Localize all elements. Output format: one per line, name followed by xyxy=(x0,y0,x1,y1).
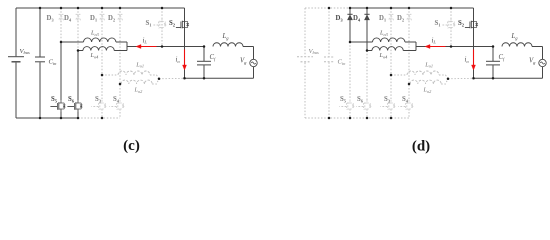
svg-text:Lo4: Lo4 xyxy=(379,52,389,59)
svg-text:S4: S4 xyxy=(402,96,409,103)
svg-text:S5: S5 xyxy=(340,96,347,103)
svg-text:Lo1: Lo1 xyxy=(135,61,144,68)
svg-text:Cin: Cin xyxy=(338,59,347,66)
svg-text:S5: S5 xyxy=(51,96,58,103)
svg-text:io: io xyxy=(465,57,470,64)
svg-text:Vg: Vg xyxy=(529,58,536,65)
svg-text:Lo3: Lo3 xyxy=(379,30,388,37)
svg-text:Vbus: Vbus xyxy=(309,48,320,55)
svg-text:D3: D3 xyxy=(47,15,55,22)
svg-text:Lg: Lg xyxy=(511,33,519,40)
svg-text:S3: S3 xyxy=(384,96,391,103)
svg-text:Lg: Lg xyxy=(222,33,230,40)
svg-text:S6: S6 xyxy=(357,96,364,103)
svg-text:D1: D1 xyxy=(379,15,387,22)
svg-text:Cin: Cin xyxy=(49,59,58,66)
svg-text:Lo4: Lo4 xyxy=(90,52,100,59)
svg-text:D3: D3 xyxy=(336,15,344,22)
svg-text:S4: S4 xyxy=(113,96,120,103)
svg-text:D4: D4 xyxy=(64,15,72,22)
svg-text:D1: D1 xyxy=(90,15,98,22)
svg-text:Vg: Vg xyxy=(240,58,247,65)
svg-text:Cf: Cf xyxy=(210,54,217,61)
svg-text:D4: D4 xyxy=(353,15,361,22)
svg-text:D2: D2 xyxy=(108,15,116,22)
svg-text:Lo1: Lo1 xyxy=(424,61,433,68)
svg-text:(d): (d) xyxy=(412,139,430,155)
svg-text:io: io xyxy=(176,57,181,64)
svg-text:iL: iL xyxy=(432,37,437,44)
svg-text:Lo2: Lo2 xyxy=(423,87,433,94)
svg-text:Vbus: Vbus xyxy=(20,48,31,55)
svg-text:S3: S3 xyxy=(95,96,102,103)
svg-text:S2: S2 xyxy=(458,20,465,27)
svg-text:iL: iL xyxy=(143,37,148,44)
svg-text:Lo3: Lo3 xyxy=(90,30,99,37)
svg-text:(c): (c) xyxy=(123,138,140,154)
svg-text:S2: S2 xyxy=(169,20,176,27)
svg-text:D2: D2 xyxy=(397,15,405,22)
svg-text:S6: S6 xyxy=(68,96,75,103)
svg-text:S1: S1 xyxy=(146,20,153,27)
svg-text:Cf: Cf xyxy=(499,54,506,61)
svg-text:Lo2: Lo2 xyxy=(134,87,144,94)
svg-text:S1: S1 xyxy=(435,20,442,27)
